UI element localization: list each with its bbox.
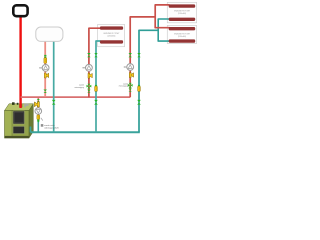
wire: return main (horizontal teal) [31,131,140,133]
valve V1: yellow cylinder with green cap on riser A [44,55,47,63]
wire: drop A return (teal, tank to return main) [53,41,55,132]
buffer tank (white rounded rectangle) [36,27,63,41]
boiler top face [5,104,34,111]
valve: yellow cylinder with green cap on drop C [138,85,141,91]
boiler top fitting nubs [12,102,15,105]
valve: yellow cylinder with green cap on drop B [95,85,98,91]
valve: green mixing valve (X) on riser C [128,83,133,88]
boiler front face [5,111,30,139]
wire: bypass line lower (teal to return main) [37,120,39,133]
wire: boiler hot riser (thick bright red) [19,16,21,109]
svg-text:GRZEJNIK PŁYTOWY: GRZEJNIK PŁYTOWY [174,10,191,12]
boiler flue collar (dark, under red pipe) [19,104,22,107]
wire: bypass line (red, supply main down to boiler group) [37,97,39,116]
valve: green gate valve on riser B near main [87,90,90,93]
label: bypass group text [41,124,44,127]
boiler right side face [29,104,33,138]
wire: teal return bus from radiators 1 and 2 [158,19,169,41]
svg-text:(1200x600): (1200x600) [178,13,187,15]
valve: green gate valve on drop A below main [52,100,56,105]
valve: green gate valve on bypass bottom [37,121,40,122]
pump P4 on bypass line (down triangle) [35,108,42,115]
wire: riser C supply (red, main up and right to right-hand bus) [130,17,155,97]
wire: drop B return (teal, radiator box 3 to return main) [96,41,101,132]
wire: red supply bus to radiators 1 and 2 [155,5,169,28]
valve: green gate valve on riser C near main [129,89,132,92]
svg-text:GRZEJNIK PŁYTOWY: GRZEJNIK PŁYTOWY [174,34,191,36]
svg-text:(1200x600): (1200x600) [178,36,187,38]
valve: green gate valve on drop C below main [137,100,141,105]
valve: yellow flag ball valve on bypass (points left) [34,102,39,107]
svg-text:mieszający: mieszający [75,87,84,89]
boiler lower door [13,126,25,133]
pump P3 on riser C [124,64,134,71]
valve: green gate valve on riser B mid [87,53,90,57]
valve: green gate valve on bypass line top [37,99,40,102]
boiler top-right gray elbow fitting [25,105,28,107]
valve: green gate valve on drop B mid [94,53,97,57]
valve: green gate valve on riser C mid [129,53,132,57]
radiator bars: box 2 [169,27,196,43]
open expansion tank (black rounded rectangle, top left) [13,5,27,16]
valve: green mixing valve (X) on riser B [87,84,92,89]
valve: yellow flag ball valve on riser B [88,73,92,78]
radiator bars: box 3 [100,26,123,43]
svg-text:zawór czter.: zawór czter. [44,124,55,127]
svg-text:(1200x600): (1200x600) [107,35,116,37]
boiler upper door [13,111,25,124]
valve: green gate valve on drop B below main [94,100,98,105]
valve: yellow cylinder with green cap on bypass lower [37,115,40,121]
wire: drop C return (teal, bus down to return main) [139,30,158,132]
pump P2 on riser B [82,64,92,71]
svg-text:mieszający: mieszający [119,86,128,88]
wire: riser B supply (red, main up and right to radiator box 3) [89,28,101,97]
wire: boiler return stub (teal, boiler right side to return main) [30,127,32,133]
svg-text:odcinający dn20: odcinający dn20 [44,128,59,130]
radiator box 2 (right, below box 1) [167,25,196,43]
valve: yellow flag ball valve on riser C [129,73,133,78]
radiator box 1 (top right) [167,2,196,22]
wire: riser A supply (salmon red, tank to supply main) [44,41,46,97]
valve V2: yellow flag ball valve on riser A [44,73,48,78]
boiler left column panel [5,111,12,138]
svg-text:GRZEJNIK PŁYTOWY: GRZEJNIK PŁYTOWY [103,33,120,35]
pump P1 on riser A (circle with up triangle) [39,65,49,72]
label leader tick near bypass pump [41,118,43,121]
radiator box 3 (middle) [98,25,125,47]
valve: green gate valve on drop C mid [137,53,140,57]
wire: supply main (horizontal red) [21,96,131,98]
boiler (green solid fuel boiler, bottom left) [5,102,34,138]
radiator bars: box 1 [169,4,196,21]
boiler bottom shadow strip [5,136,29,138]
valve: green gate valve on riser A near main [44,90,47,94]
